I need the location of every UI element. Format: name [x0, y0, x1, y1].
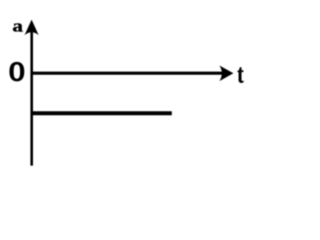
- axis a (vertical line): [30, 26, 33, 166]
- arrowhead a-axis: [25, 20, 39, 36]
- arrowhead t-axis: [219, 66, 233, 82]
- axis t (horizontal line): [31, 72, 224, 75]
- svg-text:t: t: [237, 59, 244, 88]
- svg-text:O: O: [9, 58, 25, 87]
- wire: constant negative acceleration segment: [31, 111, 172, 115]
- svg-text:a: a: [12, 17, 23, 36]
